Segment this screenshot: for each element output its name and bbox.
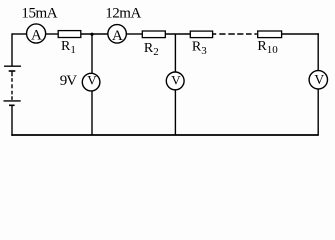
battery cell2 short plate xyxy=(9,104,15,106)
svg-text:15mA: 15mA xyxy=(21,6,57,22)
svg-text:R1: R1 xyxy=(61,39,76,56)
node junction dot xyxy=(90,33,93,36)
wire dashed battery middle xyxy=(11,78,13,100)
wire stub below cell1 xyxy=(11,71,13,76)
wire left vertical (top) xyxy=(11,33,13,66)
wire top-left segment xyxy=(12,33,27,35)
svg-text:12mA: 12mA xyxy=(105,6,141,22)
resistor R2 xyxy=(142,31,165,38)
ammeter A2 xyxy=(108,25,127,45)
wire branch2 upper xyxy=(174,34,176,72)
wire bottom xyxy=(11,134,318,136)
wire A1 to R1 xyxy=(46,33,59,35)
svg-text:V: V xyxy=(314,72,324,87)
wire branch1 upper xyxy=(91,34,93,74)
wire R10 to right corner xyxy=(282,33,319,35)
battery cell1 short plate xyxy=(9,70,16,72)
wire right vertical upper xyxy=(317,33,319,71)
svg-text:A: A xyxy=(112,28,123,44)
svg-text:V: V xyxy=(87,73,97,88)
wire A2 to R2 xyxy=(127,33,143,35)
wire R2 to R3 xyxy=(165,33,190,35)
resistor R3 xyxy=(190,31,212,37)
svg-text:9V: 9V xyxy=(60,73,77,89)
resistor R1 xyxy=(58,31,81,38)
svg-text:A: A xyxy=(31,28,42,44)
svg-text:R3: R3 xyxy=(192,40,207,57)
svg-text:R2: R2 xyxy=(144,41,159,58)
battery cell1 long plate xyxy=(4,65,21,67)
wire right vertical lower xyxy=(317,89,319,135)
wire R1 to A2 xyxy=(81,33,108,35)
voltmeter V2 xyxy=(166,72,184,90)
voltmeter V1 xyxy=(82,73,100,91)
resistor R10 xyxy=(258,31,282,38)
svg-text:R10: R10 xyxy=(257,39,278,56)
wire branch1 lower xyxy=(91,91,93,135)
ammeter A1 xyxy=(27,24,46,44)
voltmeter V3 xyxy=(309,71,327,89)
wire branch2 lower xyxy=(174,90,176,135)
wire left vertical (bottom) xyxy=(11,105,13,136)
battery cell2 long plate xyxy=(4,100,21,102)
svg-text:V: V xyxy=(171,72,181,87)
wire dashed R3 to R10 xyxy=(213,33,257,35)
